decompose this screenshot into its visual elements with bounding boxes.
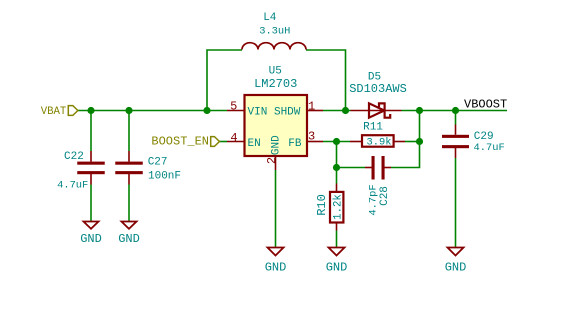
- svg-text:SD103AWS: SD103AWS: [349, 82, 407, 96]
- svg-text:VIN: VIN: [248, 107, 268, 119]
- svg-text:LM2703: LM2703: [254, 77, 297, 91]
- svg-text:BOOST_EN: BOOST_EN: [151, 134, 209, 148]
- svg-text:SHDW: SHDW: [274, 107, 301, 119]
- svg-text:4.7uF: 4.7uF: [57, 180, 88, 192]
- svg-text:R10: R10: [315, 194, 329, 216]
- svg-text:R11: R11: [363, 122, 383, 134]
- svg-text:GND: GND: [118, 232, 140, 246]
- svg-text:4.7pF: 4.7pF: [367, 184, 379, 215]
- svg-text:4: 4: [230, 131, 237, 145]
- svg-text:VBAT: VBAT: [41, 106, 67, 118]
- svg-text:GND: GND: [270, 135, 282, 155]
- svg-text:GND: GND: [445, 261, 467, 275]
- svg-text:EN: EN: [248, 138, 261, 150]
- svg-text:3: 3: [308, 130, 315, 144]
- svg-text:U5: U5: [269, 66, 282, 78]
- svg-text:100nF: 100nF: [148, 170, 181, 182]
- svg-text:5: 5: [230, 100, 237, 114]
- svg-text:3.9k: 3.9k: [367, 136, 392, 148]
- svg-text:C22: C22: [64, 151, 84, 163]
- svg-text:C27: C27: [148, 156, 168, 168]
- svg-text:1: 1: [308, 100, 315, 114]
- svg-text:4.7uF: 4.7uF: [474, 142, 505, 154]
- svg-text:1.2k: 1.2k: [332, 194, 344, 220]
- svg-text:GND: GND: [80, 232, 102, 246]
- svg-text:L4: L4: [263, 12, 277, 24]
- svg-text:VBOOST: VBOOST: [464, 98, 507, 112]
- svg-text:GND: GND: [326, 261, 348, 275]
- svg-text:FB: FB: [288, 138, 302, 150]
- svg-text:C28: C28: [379, 186, 391, 206]
- svg-text:GND: GND: [265, 261, 287, 275]
- svg-text:3.3uH: 3.3uH: [259, 26, 290, 38]
- svg-text:2: 2: [265, 157, 279, 164]
